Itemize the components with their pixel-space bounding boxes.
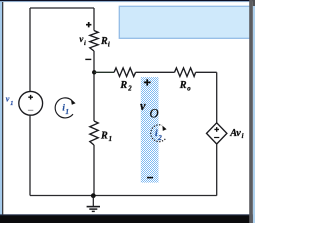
svg-text:v: v [140, 99, 146, 113]
svg-text:v: v [6, 95, 10, 104]
loop current i1 [55, 98, 75, 118]
svg-text:o: o [187, 85, 191, 92]
highlight band (output voltage region) [141, 77, 159, 183]
voltage source v1 [19, 91, 43, 115]
svg-text:1: 1 [65, 108, 69, 116]
resistor R1 [90, 121, 98, 145]
resistor Ri [90, 31, 98, 52]
wire: bottom horizontal [30, 195, 217, 197]
chrome: bottom black bar [0, 215, 255, 223]
svg-text:i: i [108, 42, 110, 49]
chrome: top edge line [0, 0, 255, 1]
chrome: left dark line [2, 2, 3, 215]
minus sign vo [147, 177, 153, 179]
wire: R2 to Ro [136, 71, 175, 73]
wire: input branch to node [93, 51, 95, 121]
chrome: right gray bar [249, 0, 253, 223]
wire: Ro to right corner [196, 71, 217, 73]
resistor Ro [175, 68, 196, 77]
svg-text:i: i [84, 40, 86, 47]
highlight callout box top-right [119, 6, 251, 38]
loop current i2 [151, 125, 167, 142]
svg-text:O: O [150, 106, 159, 120]
chrome: right blue strip [253, 6, 255, 223]
wire: right vertical upper [216, 72, 218, 123]
wire: branch to ground [93, 145, 95, 196]
resistor R2 [114, 68, 136, 77]
chrome: top-right dark block [253, 0, 255, 6]
wire: left vertical upper [29, 8, 31, 91]
plus sign vi [86, 22, 91, 27]
wire: right vertical lower [216, 144, 218, 196]
svg-text:2: 2 [127, 85, 132, 92]
dependent source Avi [207, 123, 227, 144]
wire: top horizontal [30, 7, 94, 9]
svg-text:R: R [100, 131, 108, 142]
svg-text:1: 1 [10, 100, 13, 107]
svg-text:Av: Av [229, 128, 241, 139]
svg-text:i: i [242, 133, 244, 140]
svg-text:R: R [119, 80, 127, 91]
svg-text:R: R [100, 36, 108, 47]
chrome: left blue strip [0, 2, 2, 215]
node dot [92, 70, 96, 74]
wire: output top from node to R2 [94, 71, 114, 73]
page background [0, 0, 255, 223]
svg-text:1: 1 [109, 136, 112, 143]
svg-text:R: R [179, 80, 187, 91]
minus sign vi [85, 58, 91, 60]
ground [87, 193, 100, 211]
plus sign vo [144, 79, 151, 85]
svg-text:2: 2 [157, 134, 162, 142]
wire: input branch upper [93, 8, 95, 31]
wire: left vertical lower [29, 115, 31, 195]
